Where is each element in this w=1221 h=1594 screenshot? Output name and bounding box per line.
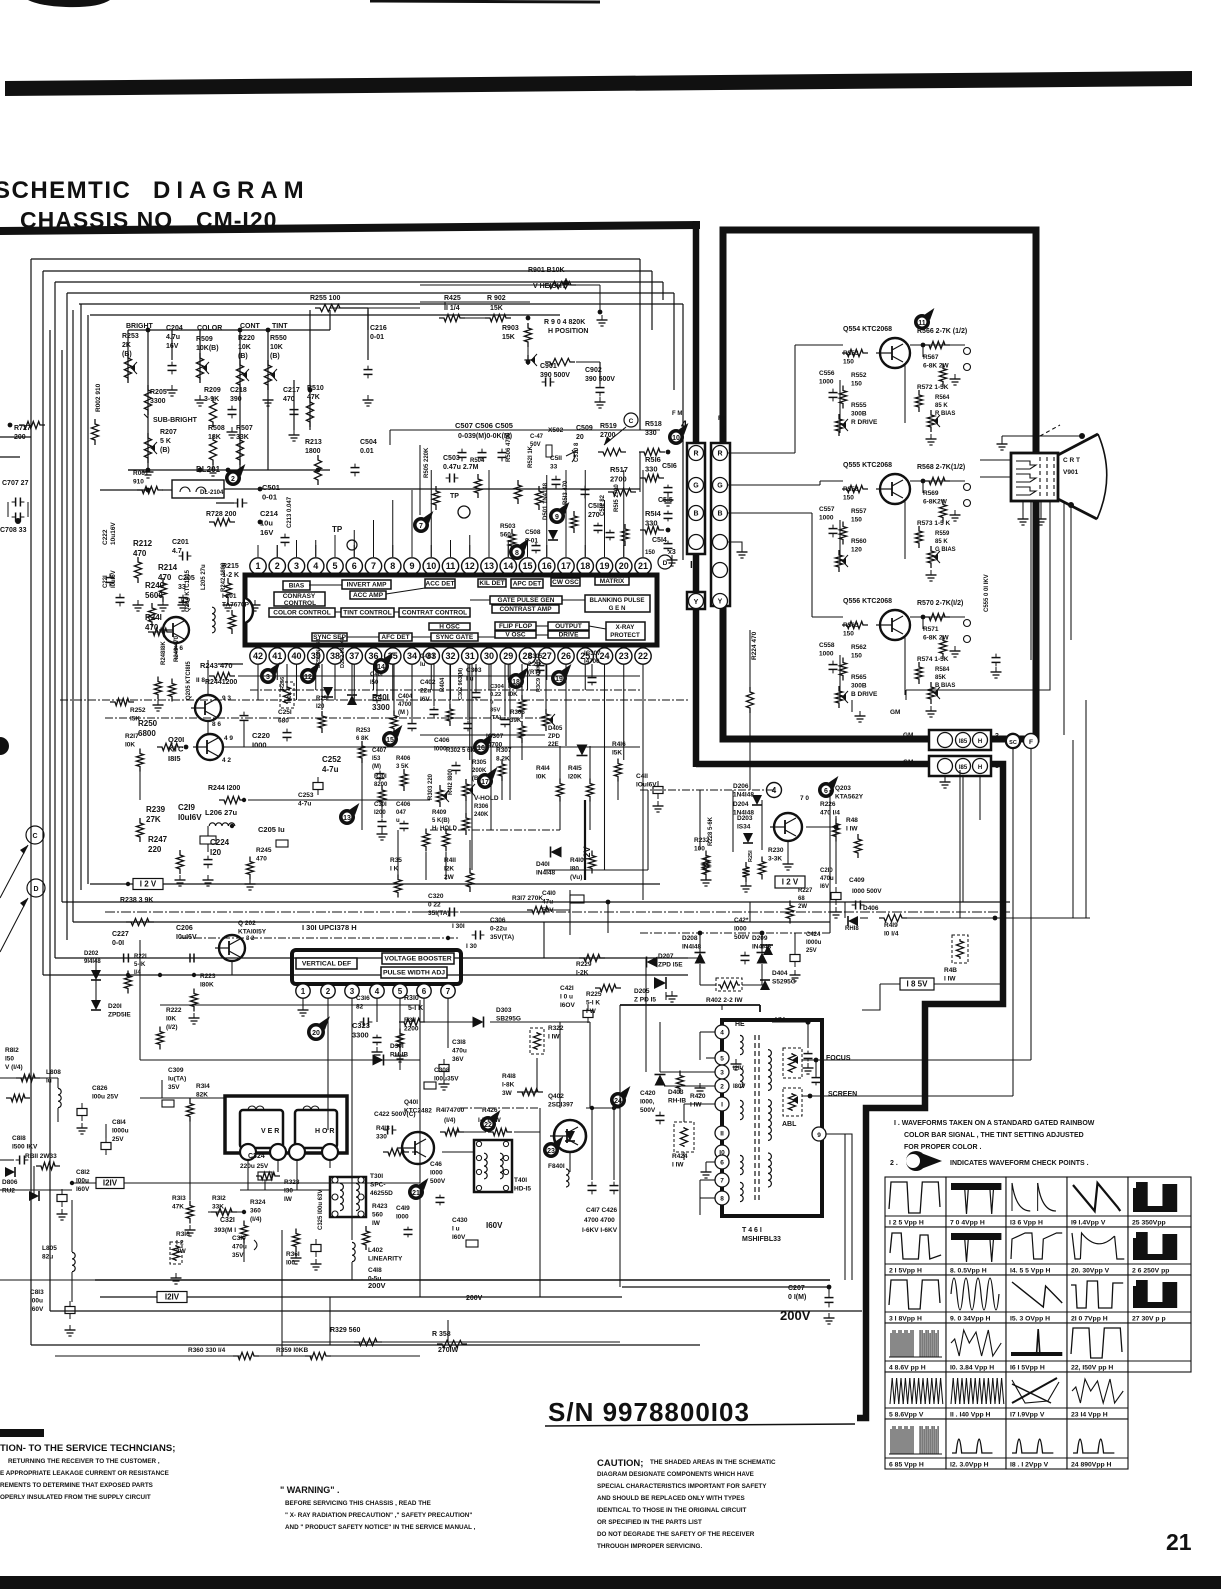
- IC internal wires: [309, 584, 342, 586]
- svg-text:4 9: 4 9: [224, 735, 233, 742]
- svg-text:SC: SC: [1009, 740, 1017, 746]
- svg-text:REMENTS TO DETERMINE THAT: REMENTS TO DETERMINE THAT EXPOSED PARTS: [0, 1482, 153, 1489]
- svg-text:IN4I48: IN4I48: [536, 870, 556, 877]
- resistor R322: [530, 1028, 544, 1054]
- connector strip left Y box: [687, 592, 705, 609]
- svg-text:B BIAS: B BIAS: [935, 683, 955, 689]
- svg-text:CONT: CONT: [240, 323, 261, 330]
- svg-text:9: 9: [409, 561, 414, 571]
- screen divider dashed: [783, 1088, 802, 1116]
- dash-dot rail over I301: [180, 937, 460, 939]
- VER HOR enclosure: [225, 1096, 347, 1153]
- svg-text:" X- RAY RADIATION PRECAUTIO: " X- RAY RADIATION PRECAUTION" ," SAFETY…: [285, 1512, 472, 1519]
- svg-text:R360 330 I/4: R360 330 I/4: [188, 1347, 226, 1354]
- IC internal block CONTRAST CONTROL: [274, 592, 325, 606]
- svg-text:R503: R503: [500, 523, 516, 530]
- svg-text:(B): (B): [238, 353, 248, 360]
- svg-text:4.7: 4.7: [172, 548, 182, 555]
- svg-text:R4I4: R4I4: [536, 765, 550, 772]
- svg-text:27: 27: [542, 651, 552, 661]
- svg-text:19: 19: [555, 676, 563, 683]
- svg-text:X-RAY: X-RAY: [616, 624, 636, 631]
- svg-text:11: 11: [918, 320, 926, 327]
- wires cluster 2: [433, 664, 435, 706]
- svg-text:II: II: [720, 1131, 724, 1138]
- svg-text:I7 I.9Vpp V: I7 I.9Vpp V: [1010, 1412, 1045, 1419]
- svg-text:R247: R247: [148, 835, 168, 844]
- svg-text:18: 18: [580, 561, 590, 571]
- svg-text:68: 68: [798, 896, 805, 902]
- svg-text:240K: 240K: [474, 812, 489, 818]
- svg-text:CONTROL: CONTROL: [284, 600, 316, 607]
- IC internal block ACC DET: [425, 579, 455, 588]
- svg-text:C25I: C25I: [278, 709, 292, 716]
- flyback HV winding: [768, 1050, 771, 1091]
- svg-text:27K: 27K: [146, 815, 161, 824]
- svg-text:DL-2104: DL-2104: [200, 490, 224, 496]
- svg-text:OPERLY INSULATED FROM THE: OPERLY INSULATED FROM THE SUPPLY CIRCUIT: [0, 1494, 151, 1501]
- page header rule fragment: [370, 1, 600, 2]
- svg-text:120: 120: [851, 547, 862, 554]
- checkpoint 22: [480, 1116, 496, 1132]
- waveform cell row4 col1: [885, 1323, 946, 1372]
- svg-text:x3: x3: [668, 549, 676, 556]
- svg-text:4.7u: 4.7u: [166, 334, 180, 341]
- wire HE top: [721, 1005, 723, 1010]
- svg-text:C201: C201: [172, 539, 189, 546]
- svg-text:C4I8: C4I8: [368, 1267, 382, 1274]
- svg-text:35V: 35V: [168, 1084, 180, 1091]
- svg-text:R DRIVE: R DRIVE: [851, 419, 878, 426]
- waveform cell row1 col3: [1006, 1177, 1067, 1227]
- svg-text:C2I9: C2I9: [178, 803, 195, 812]
- wires Q203 area: [640, 789, 774, 791]
- svg-text:5: 5: [720, 1056, 724, 1063]
- svg-text:Y: Y: [718, 599, 723, 606]
- svg-text:C403: C403: [420, 654, 435, 660]
- svg-text:I-6KV I-6KV: I-6KV I-6KV: [582, 1227, 618, 1234]
- svg-text:R3I4: R3I4: [196, 1083, 210, 1090]
- svg-text:RH-IB: RH-IB: [668, 1098, 686, 1105]
- svg-text:17: 17: [561, 561, 571, 571]
- svg-text:Q203: Q203: [835, 785, 851, 792]
- svg-text:L402: L402: [368, 1247, 383, 1254]
- svg-text:6: 6: [720, 1160, 724, 1167]
- svg-text:35V: 35V: [232, 1252, 244, 1259]
- svg-text:R302 5 6K: R302 5 6K: [446, 748, 475, 754]
- svg-text:R5I6: R5I6: [645, 455, 661, 464]
- capacitor C219 sym: [200, 836, 216, 844]
- svg-text:200V: 200V: [368, 1281, 386, 1290]
- svg-text:24: 24: [599, 651, 609, 661]
- svg-text:IN4I48: IN4I48: [682, 944, 702, 951]
- IC internal block H OSC: [429, 623, 470, 630]
- svg-text:200V: 200V: [466, 1295, 483, 1302]
- svg-text:D208: D208: [682, 935, 698, 942]
- svg-text:BLANKING PULSE: BLANKING PULSE: [589, 597, 644, 604]
- svg-text:HE: HE: [735, 1021, 745, 1028]
- IC pin1 ground: [302, 998, 304, 1008]
- left notice black bar: [0, 1429, 44, 1437]
- svg-text:I W: I W: [586, 1008, 597, 1015]
- svg-text:D20I: D20I: [108, 1003, 122, 1010]
- svg-text:R409: R409: [432, 810, 447, 816]
- svg-text:C325 I00u 63V: C325 I00u 63V: [318, 1190, 324, 1230]
- svg-text:C3I6: C3I6: [356, 995, 370, 1002]
- svg-text:3: 3: [720, 1070, 724, 1077]
- svg-text:24 890Vpp H: 24 890Vpp H: [1071, 1462, 1112, 1469]
- stage wires: [910, 344, 965, 346]
- svg-text:I IW: I IW: [548, 1034, 560, 1041]
- svg-text:T40I: T40I: [514, 1177, 527, 1184]
- svg-text:I0K: I0K: [536, 774, 546, 781]
- svg-text:270IW: 270IW: [438, 1347, 459, 1354]
- svg-text:85K: 85K: [935, 675, 947, 681]
- checkpoint 16: [473, 739, 489, 755]
- svg-text:CONTRAT CONTROL: CONTRAT CONTROL: [402, 610, 467, 617]
- svg-text:C217: C217: [283, 387, 300, 394]
- capacitor C507: [458, 452, 467, 454]
- svg-text:R: R: [717, 451, 722, 458]
- wire vertical x830: [829, 790, 831, 933]
- svg-text:Iu(TA): Iu(TA): [168, 1076, 186, 1083]
- svg-text:1800: 1800: [305, 448, 321, 455]
- svg-text:I: I: [721, 1102, 723, 1109]
- wire long verticals down-left: [139, 940, 141, 1060]
- IC internal block INVERT AMP: [342, 580, 391, 589]
- wire dash-dot bus 2: [105, 717, 545, 719]
- svg-text:I 0 u: I 0 u: [560, 994, 573, 1001]
- IC internal block GATE PULSE GEN: [490, 596, 562, 604]
- svg-text:R324: R324: [250, 1199, 266, 1206]
- IC internal block BIAS: [283, 581, 310, 590]
- svg-text:10: 10: [426, 561, 436, 571]
- junction dots mid: [126, 882, 130, 886]
- svg-text:4 2: 4 2: [222, 757, 231, 764]
- svg-text:C252: C252: [322, 755, 342, 764]
- svg-text:R224 470: R224 470: [751, 631, 758, 660]
- transistor Q554: [880, 338, 910, 368]
- waveform cell row5 col2: [946, 1372, 1006, 1419]
- svg-text:C306: C306: [490, 917, 506, 924]
- svg-text:I50: I50: [370, 680, 379, 686]
- svg-text:V E R: V E R: [261, 1128, 279, 1135]
- svg-text:C253: C253: [298, 792, 314, 799]
- svg-text:I 2 V: I 2 V: [140, 880, 157, 889]
- svg-text:R559: R559: [935, 531, 950, 537]
- wire control verticals: [127, 330, 129, 380]
- svg-text:2 6 250V pp: 2 6 250V pp: [1132, 1268, 1169, 1275]
- svg-text:I80V: I80V: [733, 1084, 745, 1090]
- wires left column: [57, 1078, 59, 1088]
- svg-text:C707 27: C707 27: [2, 480, 29, 487]
- svg-text:PULSE WIDTH ADJ: PULSE WIDTH ADJ: [383, 970, 445, 977]
- svg-text:23 I4 Vpp H: 23 I4 Vpp H: [1071, 1412, 1108, 1419]
- wires Q cluster: [152, 631, 165, 633]
- svg-text:R238 3 9K: R238 3 9K: [120, 897, 153, 904]
- svg-text:C409: C409: [849, 877, 865, 884]
- svg-text:9I4I48: 9I4I48: [84, 959, 101, 965]
- svg-text:C509: C509: [576, 425, 593, 432]
- svg-text:C4II: C4II: [636, 773, 648, 780]
- svg-text:L808: L808: [46, 1069, 61, 1076]
- transistor Q201: [197, 734, 223, 760]
- svg-text:14: 14: [503, 561, 513, 571]
- checkpoint 9: [549, 508, 565, 524]
- waveform cell row3 col2: [946, 1275, 1006, 1323]
- resistor R256 dashed: [280, 682, 294, 708]
- svg-text:ACC DET: ACC DET: [426, 581, 455, 588]
- svg-text:41: 41: [272, 651, 282, 661]
- svg-text:I000: I000: [734, 926, 747, 933]
- svg-text:330: 330: [645, 519, 658, 528]
- svg-text:COLOR: COLOR: [197, 325, 222, 332]
- svg-text:TINT CONTROL: TINT CONTROL: [343, 610, 391, 617]
- svg-text:5: 5: [398, 987, 403, 996]
- svg-text:I 2 5 Vpp H: I 2 5 Vpp H: [889, 1220, 924, 1227]
- connector circle D left: [27, 879, 45, 897]
- svg-text:SB295G: SB295G: [496, 1016, 521, 1023]
- svg-text:82K: 82K: [196, 1092, 208, 1099]
- svg-text:I50: I50: [5, 1056, 14, 1063]
- wire loop left verticals: [30, 259, 32, 1345]
- CRT internal dashed grids: [1039, 457, 1041, 497]
- svg-text:4700 4700: 4700 4700: [584, 1217, 615, 1224]
- svg-text:I00K: I00K: [287, 691, 293, 703]
- svg-text:7: 7: [446, 987, 451, 996]
- svg-text:CW OSC: CW OSC: [552, 579, 579, 586]
- power box 12V left: [133, 879, 163, 890]
- svg-text:FM: FM: [718, 416, 727, 422]
- svg-text:R30I: R30I: [374, 774, 387, 780]
- svg-text:R 902: R 902: [487, 295, 506, 302]
- diode D below C427: [763, 945, 773, 955]
- waveform cell row5 col3: [1006, 1372, 1067, 1419]
- svg-text:6 8K: 6 8K: [356, 736, 369, 742]
- wires Q402 area: [455, 1131, 486, 1133]
- svg-text:35I(TA): 35I(TA): [428, 910, 450, 917]
- checkpoint SC: [1006, 734, 1021, 749]
- IC internal block BLANKING PULSE GEN: [585, 595, 650, 612]
- svg-text:910: 910: [133, 479, 144, 486]
- svg-text:R240: R240: [145, 581, 165, 590]
- svg-text:C424: C424: [806, 932, 821, 938]
- svg-text:2K: 2K: [122, 342, 131, 349]
- svg-text:500V: 500V: [734, 934, 750, 941]
- resistor left edge: [6, 1094, 30, 1101]
- svg-text:AND SHOULD BE REPLACED ONL: AND SHOULD BE REPLACED ONLY WITH TYPES: [597, 1495, 745, 1502]
- waveform cell row5 col4: [1067, 1372, 1128, 1419]
- svg-text:I2. 3.0Vpp H: I2. 3.0Vpp H: [950, 1462, 989, 1469]
- svg-text:R253: R253: [356, 728, 371, 734]
- svg-text:I00u35V: I00u35V: [434, 1076, 459, 1083]
- svg-text:I80K: I80K: [200, 982, 214, 989]
- svg-text:I60V: I60V: [30, 1306, 44, 1313]
- svg-text:13: 13: [484, 561, 494, 571]
- svg-text:I0uI6V: I0uI6V: [111, 570, 117, 588]
- svg-text:22: 22: [638, 651, 648, 661]
- svg-text:C227: C227: [112, 931, 129, 938]
- svg-text:D252 IN4I48: D252 IN4I48: [340, 637, 346, 668]
- svg-text:42: 42: [253, 651, 263, 661]
- svg-text:8. 0.5Vpp H: 8. 0.5Vpp H: [950, 1268, 987, 1275]
- wires T301 region: [329, 1297, 331, 1345]
- IC internal block FLIP FLOP: [495, 622, 536, 630]
- svg-text:INVERT AMP: INVERT AMP: [347, 582, 388, 589]
- svg-text:I 30: I 30: [466, 943, 477, 950]
- svg-text:R209: R209: [204, 387, 221, 394]
- svg-text:GATE PULSE GEN: GATE PULSE GEN: [498, 597, 555, 604]
- svg-text:R2441200: R2441200: [205, 679, 237, 686]
- svg-text:I2IV: I2IV: [165, 1293, 180, 1302]
- capacitor C506: [478, 452, 487, 454]
- wire to right: [902, 917, 1090, 919]
- shaded-area boundary vertical: [693, 221, 700, 767]
- svg-text:R212: R212: [133, 539, 153, 548]
- svg-text:330: 330: [376, 1134, 387, 1141]
- power box 12V: [775, 876, 805, 888]
- svg-text:MSHIFBL33: MSHIFBL33: [742, 1236, 781, 1243]
- waveform cell row6 col1: [885, 1419, 946, 1469]
- wire extra pin24 down: [604, 700, 606, 870]
- waveform cell row1 col1: [885, 1177, 946, 1227]
- svg-text:4: 4: [720, 1030, 724, 1037]
- svg-text:R255 100: R255 100: [310, 295, 340, 302]
- svg-text:R244 I200: R244 I200: [208, 785, 240, 792]
- svg-text:GM: GM: [903, 732, 913, 739]
- svg-text:C: C: [629, 418, 634, 425]
- svg-text:C555 0 0I IKV: C555 0 0I IKV: [984, 574, 990, 612]
- svg-text:KTAI0I5Y: KTAI0I5Y: [238, 929, 267, 936]
- svg-text:C205 Iu: C205 Iu: [258, 825, 285, 834]
- svg-text:Q204 KTC1815: Q204 KTC1815: [185, 569, 191, 612]
- svg-text:V OSC: V OSC: [505, 632, 526, 639]
- label 121V mid: [157, 1292, 187, 1303]
- stage wires: [910, 480, 965, 482]
- wires under-IC cluster: [286, 664, 288, 690]
- checkpoint 20: [307, 1023, 325, 1041]
- wire bus 200V line: [95, 1279, 830, 1281]
- svg-text:R25I: R25I: [748, 850, 754, 862]
- svg-text:I3 6 Vpp H: I3 6 Vpp H: [1010, 1220, 1043, 1227]
- svg-text:R242 1800: R242 1800: [221, 562, 227, 592]
- svg-text:SYNC GATE: SYNC GATE: [436, 634, 474, 641]
- CRT funnel: [1058, 434, 1098, 455]
- svg-text:R232: R232: [694, 837, 710, 844]
- svg-text:9 3: 9 3: [222, 695, 231, 702]
- svg-text:R571: R571: [923, 626, 939, 633]
- svg-text:C902: C902: [585, 367, 602, 374]
- svg-text:I9 I.4Vpp V: I9 I.4Vpp V: [1071, 1220, 1106, 1227]
- svg-text:C5I5: C5I5: [658, 497, 673, 504]
- svg-text:R223: R223: [200, 973, 216, 980]
- flyback core dashes: [754, 1035, 756, 1200]
- svg-text:R3I6: R3I6: [176, 1231, 190, 1238]
- svg-text:7: 7: [371, 561, 376, 571]
- svg-text:C32I: C32I: [220, 1217, 235, 1224]
- svg-text:R225: R225: [586, 991, 602, 998]
- svg-text:R40I: R40I: [372, 693, 389, 702]
- svg-text:15K: 15K: [490, 305, 503, 312]
- svg-text:R: R: [693, 451, 698, 458]
- svg-text:C224: C224: [210, 838, 230, 847]
- transistor Q202: [219, 935, 245, 961]
- IC I301 pins 1-7: [296, 984, 310, 998]
- svg-text:I85: I85: [959, 739, 968, 745]
- svg-text:GM: GM: [890, 709, 900, 716]
- svg-text:R4I2 I800: R4I2 I800: [448, 768, 454, 795]
- svg-text:BIAS: BIAS: [289, 583, 305, 590]
- svg-text:34: 34: [407, 651, 417, 661]
- wire mesh center low: [397, 830, 399, 878]
- connector circle C left: [26, 826, 44, 844]
- svg-text:BEFORE SERVICING THIS CHASS: BEFORE SERVICING THIS CHASSIS , READ THE: [285, 1500, 431, 1507]
- svg-text:F M: F M: [672, 411, 682, 417]
- svg-text:I K: I K: [390, 866, 399, 873]
- svg-text:R002 910: R002 910: [95, 383, 102, 412]
- svg-text:II . I40 Vpp H: II . I40 Vpp H: [950, 1412, 991, 1419]
- R562 B-drive bottom wires: [851, 700, 853, 712]
- svg-text:5 8.6Vpp V: 5 8.6Vpp V: [889, 1412, 924, 1419]
- svg-text:OUTPUT: OUTPUT: [555, 623, 582, 630]
- svg-text:(I/4): (I/4): [250, 1216, 262, 1223]
- svg-text:560: 560: [372, 1212, 383, 1219]
- svg-text:I 30I UPCI378 H: I 30I UPCI378 H: [302, 923, 357, 932]
- svg-text:10u16V: 10u16V: [110, 522, 117, 545]
- svg-text:85 K: 85 K: [935, 539, 948, 545]
- svg-text:20: 20: [312, 1030, 320, 1037]
- svg-text:150: 150: [843, 495, 854, 502]
- svg-text:R505 220K: R505 220K: [424, 447, 430, 478]
- svg-text:10K: 10K: [270, 344, 283, 351]
- svg-text:R728 200: R728 200: [206, 511, 236, 518]
- svg-text:LINEARITY: LINEARITY: [368, 1256, 403, 1263]
- svg-text:4-7u: 4-7u: [322, 765, 339, 774]
- svg-text:R 9 0 4 820K: R 9 0 4 820K: [544, 319, 585, 326]
- svg-text:(B): (B): [122, 351, 132, 358]
- svg-text:C216: C216: [370, 325, 387, 332]
- svg-text:C-47: C-47: [530, 434, 544, 440]
- svg-text:680: 680: [278, 718, 289, 725]
- shaded-area boundary path lower right: [696, 764, 1003, 1418]
- svg-text:2700: 2700: [610, 475, 627, 484]
- svg-text:I0. 3.84 Vpp H: I0. 3.84 Vpp H: [950, 1365, 994, 1372]
- svg-text:Q 202: Q 202: [238, 920, 256, 927]
- waveform cell row3 col5: [1128, 1275, 1191, 1323]
- svg-text:R305: R305: [472, 760, 487, 766]
- svg-text:20: 20: [619, 561, 629, 571]
- svg-text:1000: 1000: [819, 379, 834, 386]
- svg-text:15K: 15K: [502, 334, 515, 341]
- svg-text:2SDI397: 2SDI397: [548, 1102, 574, 1109]
- wire R329 rail: [282, 1341, 620, 1343]
- waveform cell row5 col1: [885, 1372, 946, 1419]
- waveform cell row4 col5: [1128, 1323, 1191, 1372]
- svg-text:I 2 V: I 2 V: [782, 878, 799, 887]
- svg-text:C507 C506 C505: C507 C506 C505: [455, 421, 513, 430]
- IC internal PULSE WIDTH ADJ: [381, 967, 447, 978]
- svg-text:3: 3: [995, 733, 999, 740]
- svg-text:CONRASY: CONRASY: [283, 593, 316, 600]
- svg-text:23: 23: [547, 1148, 555, 1155]
- svg-text:D202: D202: [84, 951, 99, 957]
- svg-text:I: I: [690, 560, 693, 571]
- svg-text:16: 16: [542, 561, 552, 571]
- connector strip left: [687, 443, 705, 554]
- svg-text:I-8K: I-8K: [502, 1082, 515, 1089]
- power box 121V left: [96, 1178, 124, 1189]
- svg-text:Z PD I5: Z PD I5: [634, 997, 656, 1004]
